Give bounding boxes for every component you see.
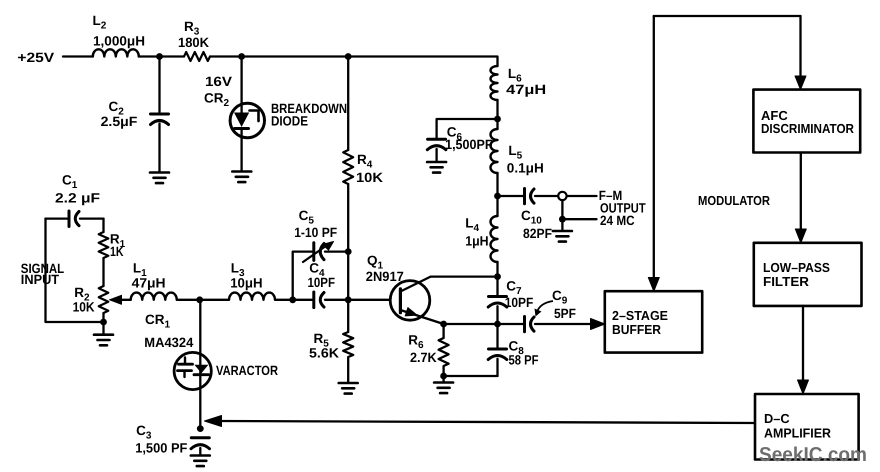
- svg-text:10PF: 10PF: [308, 275, 336, 290]
- varactor CR1: [174, 352, 211, 389]
- transistor Q1: [390, 281, 430, 321]
- output stub to ground: [562, 200, 596, 219]
- wire rail L2 to R3: [139, 55, 184, 57]
- svg-text:D–C: D–C: [764, 411, 790, 426]
- svg-text:58 PF: 58 PF: [509, 353, 539, 368]
- svg-text:DIODE: DIODE: [271, 114, 308, 129]
- resistor R3: [184, 52, 210, 61]
- ground below C2: [150, 173, 169, 184]
- svg-text:5.6K: 5.6K: [309, 346, 339, 361]
- breakdown diode CR2: [230, 103, 264, 137]
- svg-text:VARACTOR: VARACTOR: [216, 363, 278, 378]
- potentiometer R2: [99, 286, 109, 313]
- svg-text:180K: 180K: [178, 35, 209, 50]
- node dot R2 bottom: [100, 319, 107, 326]
- svg-text:INPUT: INPUT: [21, 272, 60, 287]
- node dot rail/R4: [345, 53, 352, 60]
- arrow through C5: [303, 245, 328, 263]
- svg-text:2–STAGE: 2–STAGE: [612, 308, 668, 323]
- feedback line from D-C amplifier to varactor: [218, 421, 756, 423]
- wire rail R3 to L6 corner: [210, 57, 498, 67]
- wire C2 branch: [158, 57, 160, 113]
- svg-text:47μH: 47μH: [506, 82, 546, 97]
- svg-text:1,500 PF: 1,500 PF: [135, 441, 187, 456]
- node dot rail/CR2: [238, 53, 245, 60]
- resistor R5: [343, 300, 353, 382]
- wire CR2 branch: [240, 57, 242, 113]
- wire collector node to C7: [496, 277, 498, 295]
- node dot L5/L4/C10: [494, 193, 501, 200]
- wire L3 to C4: [275, 299, 313, 301]
- node dot rail/C2: [156, 53, 163, 60]
- ground below CR2: [232, 172, 251, 183]
- capacitor C8: [496, 324, 498, 348]
- svg-text:10K: 10K: [356, 170, 383, 185]
- svg-text:1,500PF: 1,500PF: [445, 137, 492, 152]
- wire emitter to C9: [444, 323, 524, 325]
- wire R4 branch from rail: [347, 57, 349, 151]
- svg-text:2.7K: 2.7K: [410, 350, 437, 365]
- svg-text:FILTER: FILTER: [763, 274, 810, 289]
- svg-text:1μH: 1μH: [465, 233, 488, 248]
- svg-text:5PF: 5PF: [554, 306, 576, 321]
- ground below C6: [427, 162, 446, 173]
- svg-text:MODULATOR: MODULATOR: [698, 193, 771, 208]
- svg-text:16V: 16V: [205, 74, 232, 89]
- inductor L4: [491, 216, 498, 262]
- wire R6 bottom to C8 bottom: [444, 375, 498, 377]
- svg-text:SeekIC.com: SeekIC.com: [759, 444, 867, 466]
- svg-text:DISCRIMINATOR: DISCRIMINATOR: [761, 121, 855, 136]
- wire R6 to ground: [442, 376, 444, 382]
- node dot R6/C8 bottom: [440, 373, 447, 380]
- varactor CR1 wire: [199, 300, 201, 429]
- wire R2 node to ground: [102, 322, 104, 334]
- ground below C3: [191, 456, 210, 467]
- svg-text:47μH: 47μH: [132, 276, 166, 291]
- svg-text:AMPLIFIER: AMPLIFIER: [764, 426, 832, 441]
- svg-text:2.5μF: 2.5μF: [101, 114, 138, 129]
- variable capacitor C5: [312, 243, 315, 261]
- node dot C4/R4/R5/base: [345, 296, 352, 303]
- node dot L3/C5/C4: [289, 296, 296, 303]
- wire +25V supply rail left: [63, 55, 93, 57]
- wire L6 to node: [496, 100, 498, 129]
- node dot L6/L5/C6: [494, 116, 501, 123]
- resistor R1: [99, 232, 109, 258]
- svg-text:24 MC: 24 MC: [600, 213, 635, 228]
- svg-text:MA4324: MA4324: [144, 335, 193, 350]
- inductor L3: [229, 293, 275, 300]
- capacitor C4: [312, 292, 315, 308]
- capacitor C3: [191, 436, 209, 439]
- AFC discriminator box: [753, 90, 860, 153]
- svg-text:10K: 10K: [73, 300, 95, 315]
- F-M output terminal: [558, 192, 566, 200]
- node dot output stub: [559, 216, 566, 223]
- capacitor C9: [523, 317, 526, 332]
- wire AFC to low-pass filter: [800, 153, 802, 231]
- signal input bracket: [46, 219, 104, 322]
- breakdown diode triangle: [234, 113, 249, 128]
- wire C5 node to main line: [347, 252, 349, 300]
- wire C5 branch up: [293, 252, 313, 300]
- inductor L2: [93, 49, 139, 56]
- inductor L5: [491, 129, 498, 173]
- wire R1 to R2: [102, 258, 104, 286]
- svg-text:+25V: +25V: [17, 50, 54, 65]
- low-pass filter box: [754, 243, 862, 306]
- wire low-pass filter to D-C amplifier: [802, 306, 804, 381]
- wire down to buffer: [653, 16, 655, 278]
- 2-stage buffer box: [605, 291, 702, 352]
- svg-text:LOW–PASS: LOW–PASS: [763, 260, 830, 275]
- wire C10 branch: [498, 195, 524, 197]
- node dot C3/feedback: [197, 425, 204, 432]
- ground below R2: [94, 335, 113, 346]
- varactor diode triangle: [194, 365, 208, 374]
- wire C4 to Q1 base: [348, 299, 390, 301]
- svg-text:10μH: 10μH: [230, 276, 262, 291]
- wire R4 to C5 node: [347, 184, 349, 252]
- ground below R5: [339, 383, 358, 394]
- node dot emitter/R6: [440, 321, 447, 328]
- wire L1 to L3: [177, 299, 229, 301]
- svg-text:2N917: 2N917: [366, 269, 404, 284]
- svg-text:0.1μH: 0.1μH: [507, 161, 544, 176]
- capacitor C2: [151, 113, 169, 116]
- svg-text:82PF: 82PF: [523, 226, 552, 241]
- wire C6 branch: [437, 119, 498, 138]
- feedback top line: [654, 15, 801, 17]
- D-C amplifier box: [755, 394, 859, 460]
- Q1 emitter: [400, 310, 443, 324]
- svg-text:10PF: 10PF: [505, 295, 534, 310]
- capacitor C10: [523, 189, 526, 204]
- svg-text:1,000μH: 1,000μH: [93, 34, 145, 49]
- resistor R6: [439, 324, 449, 376]
- R2 wiper arrow: [120, 299, 131, 301]
- Q1 collector: [400, 277, 497, 292]
- resistor R4: [343, 150, 353, 184]
- svg-text:2.2 μF: 2.2 μF: [55, 191, 100, 206]
- capacitor C1: [46, 217, 69, 219]
- arrow into buffer: [591, 319, 605, 330]
- ground below R6: [434, 383, 453, 394]
- wire C1 to R1: [102, 219, 104, 232]
- wire L5 to C10 node: [496, 173, 498, 216]
- ground below output: [553, 231, 572, 242]
- svg-text:1-10 PF: 1-10 PF: [294, 225, 337, 240]
- wire L4 to collector node: [496, 262, 498, 277]
- svg-text:BUFFER: BUFFER: [612, 322, 662, 337]
- wire into AFC discriminator: [799, 16, 801, 77]
- inductor L6: [491, 66, 498, 100]
- node dot C5/R4: [345, 248, 352, 255]
- node dot L1/L3/CR1: [196, 296, 203, 303]
- node dot C7/C8/C9: [494, 321, 501, 328]
- svg-text:1K: 1K: [110, 244, 124, 259]
- pointer arrow C9: [537, 301, 553, 312]
- node dot collector/L4/C7: [494, 273, 501, 280]
- capacitor C6: [428, 138, 446, 141]
- inductor L1: [131, 293, 177, 300]
- capacitor C7: [489, 295, 507, 298]
